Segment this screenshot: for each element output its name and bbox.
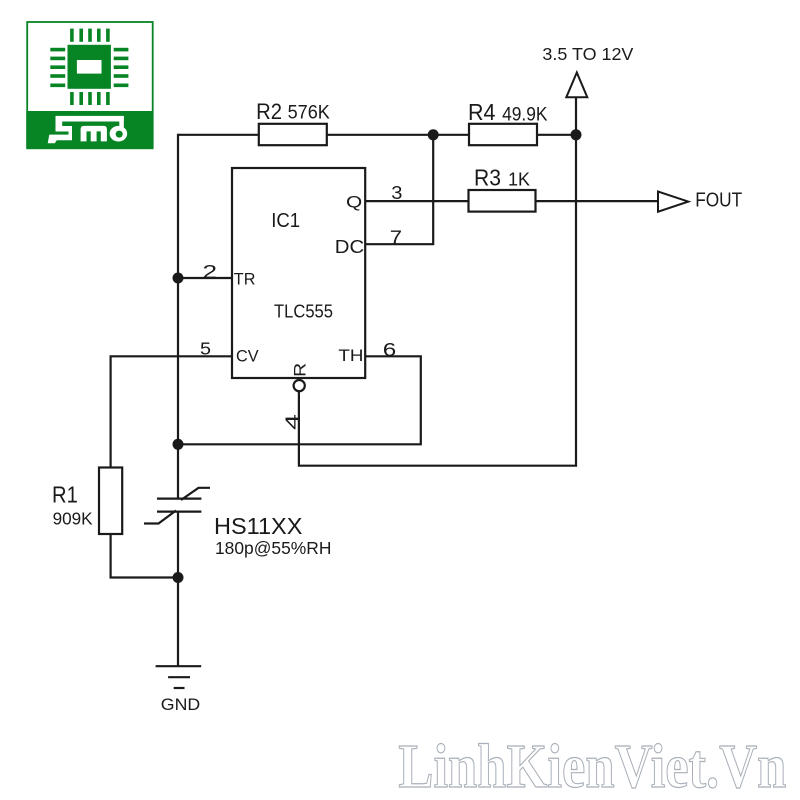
svg-text:R2: R2 bbox=[256, 99, 282, 124]
svg-text:TR: TR bbox=[234, 269, 256, 288]
svg-text:LinhKienViet.Vn: LinhKienViet.Vn bbox=[398, 733, 786, 800]
svg-text:1K: 1K bbox=[508, 170, 530, 190]
svg-text:FOUT: FOUT bbox=[695, 189, 742, 212]
svg-text:3.5 TO 12V: 3.5 TO 12V bbox=[542, 44, 633, 64]
svg-text:Q: Q bbox=[346, 192, 362, 211]
svg-text:R4: R4 bbox=[468, 99, 496, 125]
svg-text:2: 2 bbox=[203, 261, 218, 282]
svg-text:R1: R1 bbox=[52, 482, 78, 508]
svg-text:DC: DC bbox=[335, 237, 364, 257]
svg-text:TH: TH bbox=[338, 347, 363, 365]
svg-text:7: 7 bbox=[390, 228, 402, 248]
svg-text:5: 5 bbox=[200, 339, 211, 359]
svg-text:3: 3 bbox=[391, 183, 402, 203]
svg-text:GND: GND bbox=[161, 695, 200, 714]
svg-text:IC1: IC1 bbox=[271, 209, 300, 232]
svg-text:49.9K: 49.9K bbox=[502, 105, 548, 126]
svg-text:4: 4 bbox=[282, 414, 302, 430]
svg-text:R3: R3 bbox=[474, 165, 501, 191]
svg-text:909K: 909K bbox=[53, 509, 93, 529]
svg-text:576K: 576K bbox=[288, 103, 331, 124]
svg-text:6: 6 bbox=[383, 340, 397, 360]
svg-text:HS11XX: HS11XX bbox=[214, 513, 303, 539]
svg-text:180p@55%RH: 180p@55%RH bbox=[215, 538, 331, 558]
svg-text:CV: CV bbox=[236, 347, 259, 366]
svg-text:R: R bbox=[290, 363, 309, 377]
svg-text:TLC555: TLC555 bbox=[274, 301, 333, 322]
